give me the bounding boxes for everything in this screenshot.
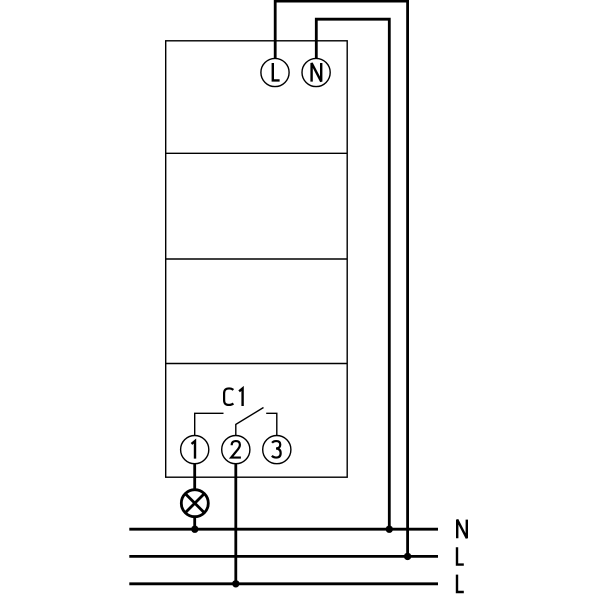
terminal N [302,58,330,86]
relay contact C1: fixed contact from terminal 1 [195,413,224,435]
terminal 2 [222,436,250,464]
bus line N [129,528,438,531]
wire from terminal N to bus N (top route) [316,19,389,529]
terminal 1 [181,436,209,464]
bus line L (bottom) [129,582,438,585]
junction: terminal 2 wire to bus L bottom [232,580,239,587]
junction: L wire to bus L middle [404,553,411,560]
section divider 2 [166,258,348,260]
label L (bus middle) [457,547,464,564]
terminal 3 [263,436,291,464]
bus line L (middle) [129,555,438,558]
wire terminal 1 to lamp and bus N [193,463,196,529]
label N (bus) [457,520,467,539]
terminal L [261,58,289,86]
wire terminal 2 to bus L (bottom) [234,463,237,584]
section divider 3 [166,363,348,365]
relay contact C1: fixed contact from terminal 3 [266,413,277,435]
wire stub into terminal N [315,59,318,61]
device outline [166,41,348,477]
junction: lamp to bus N [191,526,198,533]
relay contact C1: movable blade from terminal 2 [236,408,264,436]
lamp [181,490,208,517]
label L (bus bottom) [457,575,464,592]
junction: N wire to bus N [386,526,393,533]
label C1 [224,388,243,406]
section divider 1 [166,152,348,154]
wire stub into terminal L [274,59,277,61]
wire from terminal L to bus L (top route) [275,1,407,556]
